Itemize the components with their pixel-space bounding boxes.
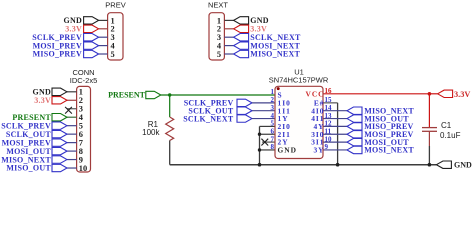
svg-text:10: 10 bbox=[325, 135, 333, 143]
svg-text:MOSI_NEXT: MOSI_NEXT bbox=[364, 146, 414, 155]
svg-text:PREV: PREV bbox=[105, 1, 125, 10]
svg-text:IDC-2x5: IDC-2x5 bbox=[70, 76, 98, 85]
svg-text:MISO_NEXT: MISO_NEXT bbox=[250, 50, 300, 59]
svg-text:16: 16 bbox=[325, 87, 333, 95]
svg-text:GND: GND bbox=[278, 146, 297, 155]
svg-text:SCLK_NEXT: SCLK_NEXT bbox=[183, 114, 234, 123]
svg-text:7: 7 bbox=[271, 135, 275, 143]
svg-text:1: 1 bbox=[271, 88, 275, 96]
svg-text:100k: 100k bbox=[142, 128, 160, 137]
svg-text:3.3V: 3.3V bbox=[454, 90, 470, 99]
svg-text:PRESENT: PRESENT bbox=[108, 91, 146, 100]
svg-text:5: 5 bbox=[111, 50, 115, 59]
svg-text:3: 3 bbox=[271, 104, 275, 112]
svg-text:15: 15 bbox=[325, 96, 333, 104]
svg-text:C1: C1 bbox=[441, 121, 452, 130]
svg-text:MISO_OUT: MISO_OUT bbox=[6, 164, 51, 173]
svg-text:SN74HC157PWR: SN74HC157PWR bbox=[269, 75, 329, 84]
svg-text:12: 12 bbox=[325, 120, 333, 128]
svg-text:NEXT: NEXT bbox=[208, 1, 228, 10]
svg-text:VCC: VCC bbox=[305, 89, 324, 98]
svg-text:2: 2 bbox=[271, 96, 275, 104]
svg-text:3Y: 3Y bbox=[313, 146, 324, 155]
svg-text:0.1uF: 0.1uF bbox=[440, 131, 461, 140]
svg-text:5: 5 bbox=[217, 50, 221, 59]
svg-text:9: 9 bbox=[325, 143, 329, 151]
svg-text:4: 4 bbox=[271, 112, 275, 120]
svg-text:8: 8 bbox=[271, 143, 275, 151]
svg-text:10: 10 bbox=[79, 164, 87, 173]
svg-text:14: 14 bbox=[325, 104, 333, 112]
svg-text:3.3V: 3.3V bbox=[34, 96, 51, 105]
svg-text:6: 6 bbox=[271, 127, 275, 135]
svg-text:13: 13 bbox=[325, 112, 333, 120]
svg-text:5: 5 bbox=[271, 120, 275, 128]
svg-text:MISO_PREV: MISO_PREV bbox=[33, 50, 82, 59]
svg-text:11: 11 bbox=[325, 127, 332, 135]
svg-text:GND: GND bbox=[454, 161, 472, 170]
